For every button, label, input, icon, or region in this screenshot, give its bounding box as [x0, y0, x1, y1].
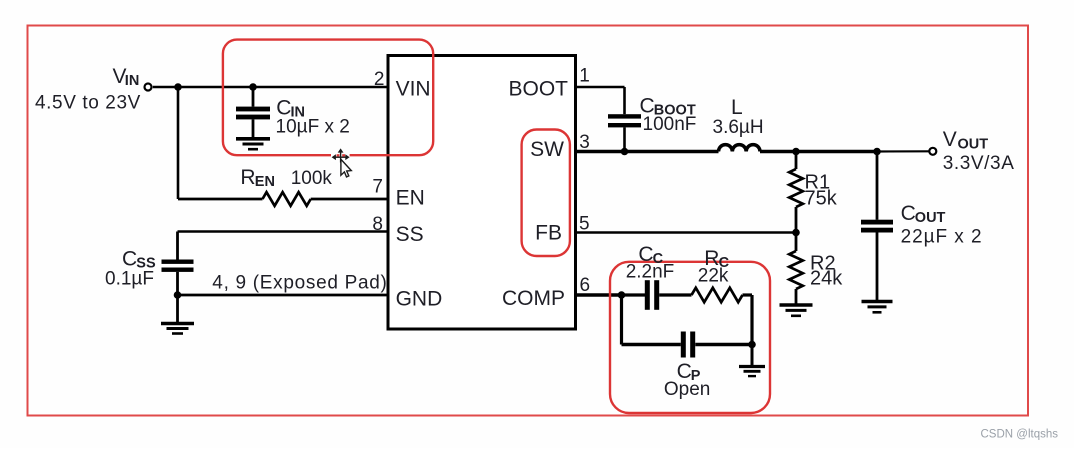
- svg-text:2.2nF: 2.2nF: [626, 262, 675, 283]
- svg-text:3.6µH: 3.6µH: [713, 117, 764, 138]
- svg-text:L: L: [731, 96, 743, 119]
- svg-text:6: 6: [580, 275, 591, 296]
- svg-text:75k: 75k: [805, 188, 838, 210]
- svg-text:V: V: [943, 128, 957, 151]
- svg-text:22k: 22k: [698, 266, 729, 287]
- svg-text:GND: GND: [396, 288, 443, 311]
- svg-text:7: 7: [372, 177, 383, 198]
- svg-text:IN: IN: [125, 73, 140, 89]
- svg-text:24k: 24k: [810, 268, 843, 290]
- svg-text:CSDN @ltqshs: CSDN @ltqshs: [981, 429, 1059, 441]
- svg-text:8: 8: [372, 214, 383, 235]
- svg-text:SS: SS: [396, 223, 424, 246]
- svg-text:4, 9 (Exposed Pad): 4, 9 (Exposed Pad): [212, 273, 387, 294]
- svg-text:4.5V to 23V: 4.5V to 23V: [35, 93, 141, 114]
- svg-text:100nF: 100nF: [643, 114, 697, 135]
- svg-text:FB: FB: [535, 222, 562, 245]
- svg-text:10µF x 2: 10µF x 2: [276, 117, 350, 138]
- svg-text:1: 1: [579, 66, 590, 87]
- svg-text:VIN: VIN: [396, 78, 431, 101]
- svg-text:BOOT: BOOT: [508, 78, 568, 101]
- svg-text:0.1µF: 0.1µF: [105, 269, 154, 290]
- svg-text:COMP: COMP: [502, 287, 565, 310]
- svg-text:3.3V/3A: 3.3V/3A: [943, 153, 1015, 174]
- svg-text:C: C: [901, 202, 916, 225]
- svg-text:3: 3: [579, 132, 590, 153]
- svg-text:SW: SW: [530, 138, 564, 161]
- svg-text:R: R: [240, 166, 255, 189]
- svg-text:EN: EN: [255, 174, 275, 190]
- svg-text:22µF x 2: 22µF x 2: [901, 227, 983, 248]
- svg-text:C: C: [122, 248, 137, 271]
- svg-text:OUT: OUT: [958, 137, 989, 153]
- svg-text:2: 2: [374, 69, 385, 90]
- svg-text:100k: 100k: [291, 168, 333, 189]
- svg-text:EN: EN: [396, 187, 425, 210]
- svg-text:5: 5: [579, 214, 590, 235]
- svg-text:OUT: OUT: [915, 210, 946, 226]
- svg-text:Open: Open: [664, 379, 710, 400]
